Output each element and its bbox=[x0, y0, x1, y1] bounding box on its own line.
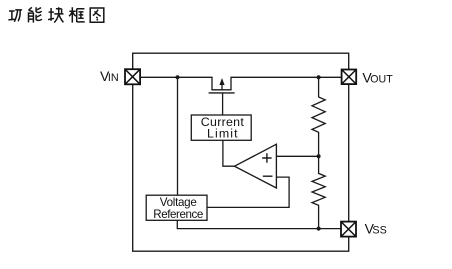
op-amp minus input symbol bbox=[263, 175, 273, 177]
wire: voltage reference down to VSS rail bbox=[177, 220, 341, 228]
图 bbox=[90, 8, 104, 22]
pin VOUT bbox=[342, 70, 357, 85]
pin VSS bbox=[341, 222, 356, 237]
transistor Q1 gate bar bbox=[209, 92, 235, 94]
svg-text:IN: IN bbox=[108, 72, 119, 84]
current limit box bbox=[191, 115, 251, 140]
框 bbox=[69, 7, 76, 22]
pin VIN bbox=[125, 69, 140, 84]
transistor Q1 arrow bbox=[219, 78, 224, 90]
wire: pass transistor drain to VOUT bbox=[231, 77, 342, 90]
op-amp U1 bbox=[235, 144, 277, 188]
transistor Q1 channel bar bbox=[211, 89, 231, 91]
svg-text:OUT: OUT bbox=[370, 74, 393, 86]
wire: gate to current limit bbox=[222, 93, 224, 115]
resistor R1 (upper) bbox=[312, 77, 325, 156]
voltage reference box bbox=[146, 195, 207, 220]
node B (divider mid / plus input) bbox=[317, 154, 321, 158]
outer block border bbox=[133, 53, 349, 251]
title 功能块框图 (drawn strokes) bbox=[8, 7, 103, 22]
svg-text:SS: SS bbox=[372, 225, 386, 237]
块 bbox=[48, 8, 54, 21]
node C (top divider tap on VOUT wire) bbox=[317, 75, 321, 79]
resistor R2 (lower) bbox=[312, 156, 325, 228]
svg-text:Reference: Reference bbox=[153, 208, 203, 221]
wire: current limit to op-amp output bbox=[223, 140, 235, 166]
svg-text:Limit: Limit bbox=[207, 127, 238, 141]
wire: plus input to divider node bbox=[276, 155, 318, 157]
op-amp plus input symbol bbox=[262, 153, 271, 162]
wire: VIN junction down to voltage reference bbox=[177, 77, 179, 195]
wire: VIN to pass transistor source bbox=[140, 77, 212, 90]
node A (VIN junction) bbox=[176, 75, 180, 79]
wire: minus input feedback to voltage reference bbox=[207, 177, 289, 207]
功 bbox=[8, 11, 14, 20]
能 bbox=[29, 7, 34, 11]
node D (R2 bottom on VSS rail) bbox=[317, 227, 321, 231]
